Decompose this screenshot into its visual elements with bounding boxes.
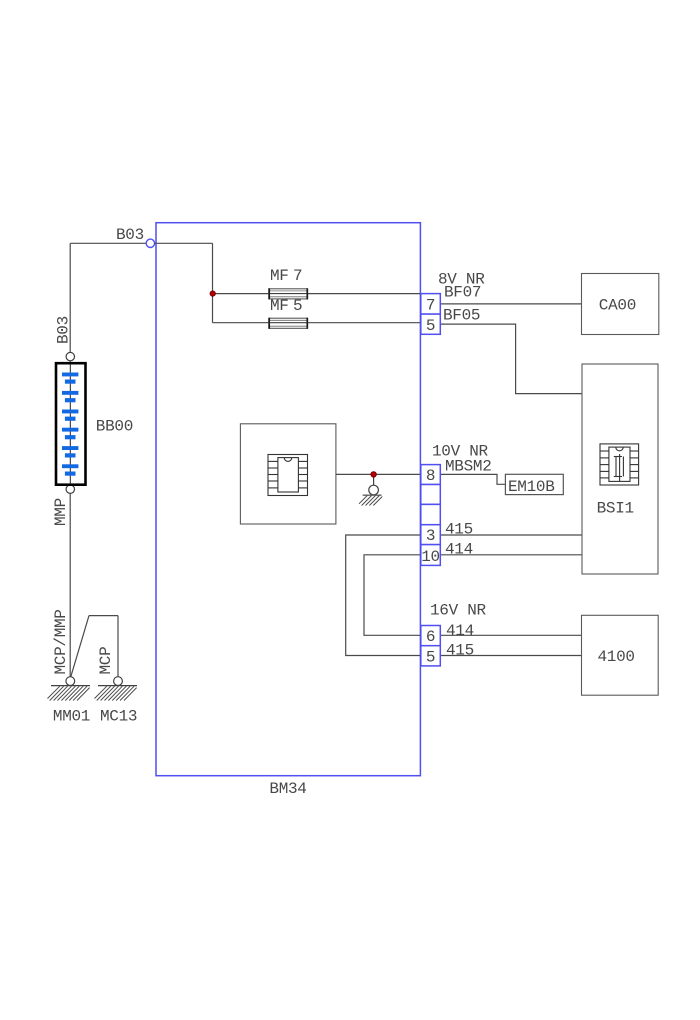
svg-text:414: 414 [445,541,473,559]
svg-text:MF: MF [270,297,289,315]
svg-text:BF07: BF07 [444,284,481,302]
svg-text:4100: 4100 [598,648,635,666]
svg-text:B03: B03 [55,316,73,344]
svg-text:MF: MF [270,267,289,285]
svg-text:BB00: BB00 [96,418,133,436]
svg-text:5: 5 [426,317,435,335]
svg-text:8: 8 [426,467,435,485]
svg-text:415: 415 [445,521,473,539]
svg-text:MM01: MM01 [53,708,90,726]
svg-text:5: 5 [426,648,435,666]
svg-text:7: 7 [426,297,435,315]
svg-text:MC13: MC13 [100,708,137,726]
svg-text:BSI1: BSI1 [597,500,634,518]
svg-text:B03: B03 [116,226,144,244]
svg-text:MBSM2: MBSM2 [445,458,492,476]
svg-text:10: 10 [421,548,440,566]
svg-text:MCP: MCP [97,647,115,675]
svg-text:MMP: MMP [52,498,70,526]
svg-text:7: 7 [293,267,302,285]
svg-text:CA00: CA00 [599,297,636,315]
svg-text:3: 3 [426,527,435,545]
svg-text:5: 5 [293,297,302,315]
svg-text:415: 415 [446,642,474,660]
svg-text:BF05: BF05 [443,307,480,325]
svg-text:16V NR: 16V NR [430,602,487,620]
svg-text:6: 6 [426,628,435,646]
svg-text:BM34: BM34 [269,780,306,798]
svg-text:414: 414 [446,622,474,640]
svg-text:EM10B: EM10B [508,478,555,496]
svg-text:MCP/MMP: MCP/MMP [52,609,70,674]
